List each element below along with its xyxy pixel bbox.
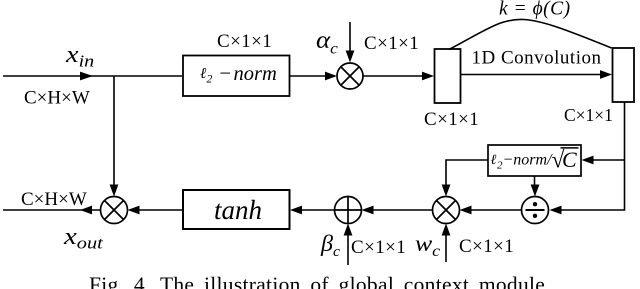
sqrt overbar [561,147,579,149]
svg-text:C×1×1: C×1×1 [564,105,613,125]
wire: top main input line [3,75,182,77]
wire: tanh to output multiplier [138,209,183,211]
svg-text:C×1×1: C×1×1 [459,236,514,257]
wire: adder to tanh box [301,209,335,211]
svg-text:C×H×W: C×H×W [21,189,87,210]
svg-text:1D Convolution: 1D Convolution [472,48,602,69]
wire: L2-norm box to multiplier [290,75,327,77]
wire: branch down from x_in to output multiplier [113,76,115,186]
svg-text:−norm/: −norm/ [503,152,554,169]
kernel-size curve [449,19,612,49]
svg-text:C×1×1: C×1×1 [364,33,419,54]
wire: multiplier to 1st feature rect [363,75,423,77]
svg-text:− norm: − norm [218,63,277,85]
svg-text:tanh: tanh [214,195,262,225]
svg-text:k = ϕ(C): k = ϕ(C) [499,0,571,20]
svg-text:C×1×1: C×1×1 [424,109,479,130]
divider circle (÷) [522,197,549,224]
wire: w_c input from bottom [445,234,447,262]
box L2-norm/sqrt(C) [488,145,581,176]
adder circle (oplus) with beta_c [335,197,362,224]
svg-text:Fig. 4. The illustration of gl: Fig. 4. The illustration of global conte… [89,273,545,289]
wire: alpha_c input from top [349,22,351,52]
multiplier (otimes) with w_c [433,197,460,224]
wire: right rect down and left to divider [561,102,625,210]
wire: 1D convolution arrow [461,74,601,76]
svg-text:C×H×W: C×H×W [24,88,90,109]
wire: output line [3,209,101,211]
multiplier (otimes) with alpha_c [337,63,363,89]
wire: divider to w multiplier [470,209,522,211]
wire: beta_c input from bottom [347,234,349,265]
output multiplier (otimes) [101,197,128,224]
svg-text:ℓ: ℓ [491,153,497,168]
feature map rect (right C×1×1) [613,48,635,102]
wire: branch into L2-norm/sqrt(C) box [592,159,625,161]
box tanh [183,190,290,229]
box L2-norm [183,56,290,97]
arrowhead on input wire [80,72,93,81]
wire: w multiplier to adder [372,209,433,211]
svg-text:C×1×1: C×1×1 [351,237,406,258]
wire: box to divider (down) [534,176,536,186]
svg-text:C×1×1: C×1×1 [217,31,272,52]
feature map rect (left C×1×1) [435,49,461,103]
wire: L2-norm/sqrt(C) box left to w multiplier [446,160,488,186]
svg-text:2: 2 [207,74,213,86]
svg-text:ℓ: ℓ [200,66,206,82]
svg-text:C: C [562,147,577,172]
